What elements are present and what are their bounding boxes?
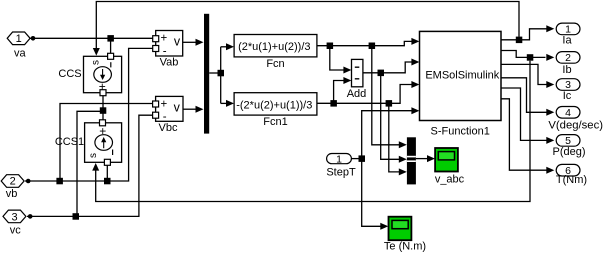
svg-text:s: s bbox=[91, 60, 102, 65]
svg-text:V(deg/sec): V(deg/sec) bbox=[548, 120, 603, 132]
svg-text:3: 3 bbox=[11, 212, 17, 224]
svg-text:Fcn1: Fcn1 bbox=[263, 116, 287, 128]
svg-text:5: 5 bbox=[565, 135, 571, 147]
svg-text:Te (N.m): Te (N.m) bbox=[384, 240, 426, 252]
svg-text:va: va bbox=[14, 47, 27, 59]
svg-text:1: 1 bbox=[16, 33, 22, 45]
svg-text:Fcn: Fcn bbox=[266, 58, 284, 70]
svg-text:Ib: Ib bbox=[562, 64, 571, 76]
svg-text:Vab: Vab bbox=[160, 57, 179, 69]
svg-text:2: 2 bbox=[10, 176, 16, 188]
svg-text:1: 1 bbox=[336, 153, 342, 165]
svg-text:+: + bbox=[161, 33, 168, 45]
svg-text:StepT: StepT bbox=[326, 166, 356, 178]
svg-text:4: 4 bbox=[565, 107, 571, 119]
svg-text:v_abc: v_abc bbox=[435, 173, 465, 185]
svg-text:v: v bbox=[174, 34, 181, 48]
svg-text:2: 2 bbox=[565, 52, 571, 64]
svg-text:P(deg): P(deg) bbox=[552, 146, 585, 158]
svg-text:Ic: Ic bbox=[563, 90, 572, 102]
svg-text:-(2*u(2)+u(1))/3: -(2*u(2)+u(1))/3 bbox=[236, 99, 312, 111]
svg-text:T(Nm): T(Nm) bbox=[556, 174, 587, 186]
svg-text:EMSolSimulink: EMSolSimulink bbox=[425, 69, 499, 81]
svg-text:S-Function1: S-Function1 bbox=[431, 125, 490, 137]
svg-text:s: s bbox=[88, 153, 99, 158]
svg-text:(2*u(1)+u(2))/3: (2*u(1)+u(2))/3 bbox=[238, 41, 310, 53]
svg-text:CCS: CCS bbox=[58, 68, 81, 80]
svg-text:Ia: Ia bbox=[562, 34, 572, 46]
svg-text:vb: vb bbox=[6, 188, 18, 200]
svg-text:+: + bbox=[161, 99, 168, 111]
svg-text:CCS1: CCS1 bbox=[55, 136, 84, 148]
svg-text:Vbc: Vbc bbox=[159, 122, 178, 134]
svg-text:Add: Add bbox=[347, 88, 367, 100]
svg-text:vc: vc bbox=[10, 225, 22, 237]
svg-text:v: v bbox=[174, 100, 181, 114]
